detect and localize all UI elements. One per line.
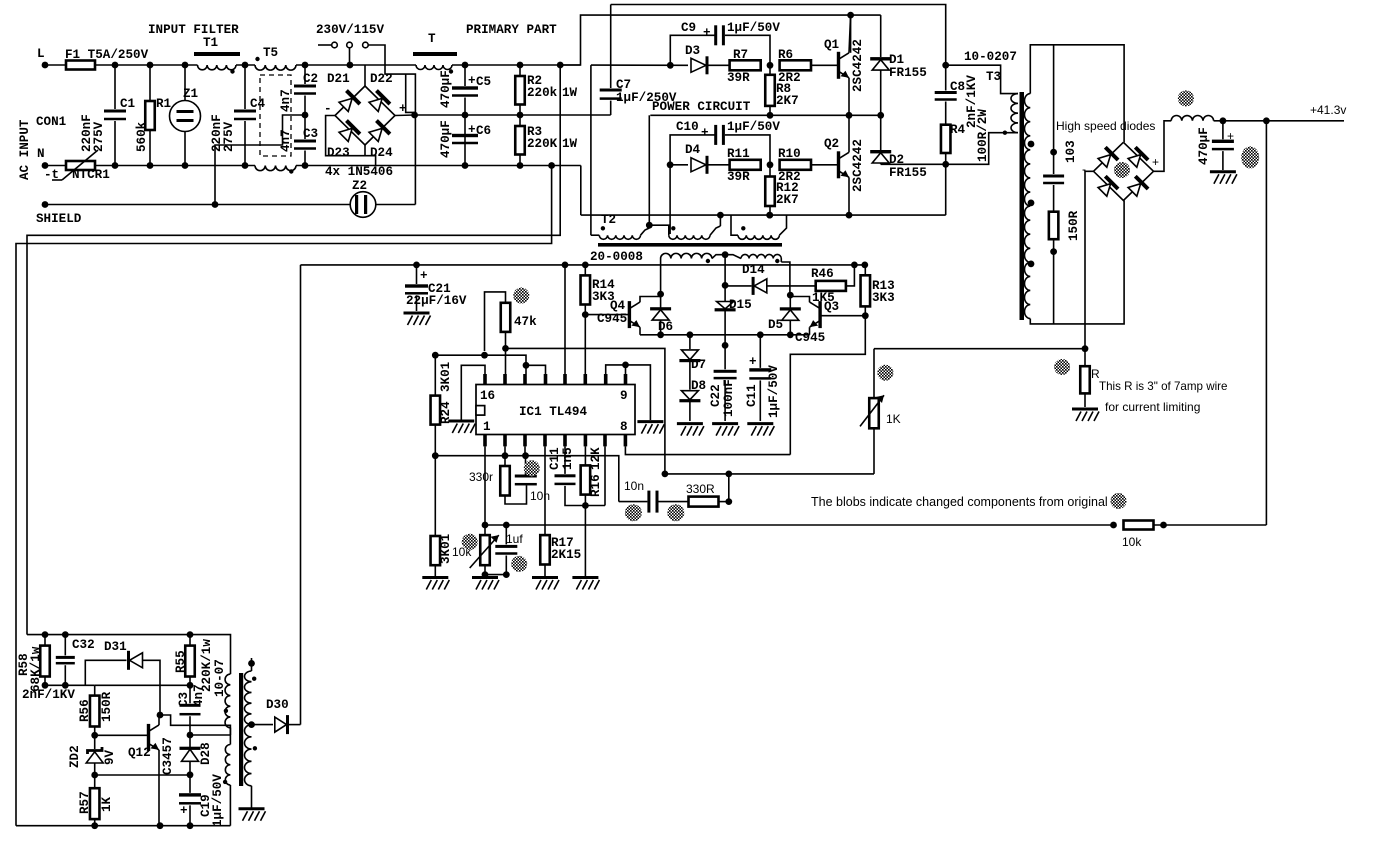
- wire R24 to pins 13 14: [435, 355, 526, 365]
- diode D2: [880, 115, 882, 150]
- node R58 bottom: [42, 682, 49, 689]
- node N-R1: [147, 162, 154, 169]
- svg-text:1n5: 1n5: [561, 447, 575, 470]
- capacitor C3 4n7: [189, 685, 191, 703]
- svg-text:+: +: [749, 355, 757, 369]
- blob above choke: [1178, 90, 1194, 106]
- node R14 bottom: [582, 311, 589, 318]
- node aux secondary top: [248, 660, 255, 667]
- wire switch right path: [368, 45, 415, 205]
- emitter rail T2: [580, 166, 582, 216]
- node 470uF out: [1220, 117, 1227, 124]
- hs diode NW: [1096, 146, 1119, 169]
- capacitor 1uf: [505, 525, 507, 544]
- svg-text:High speed diodes: High speed diodes: [1056, 119, 1155, 133]
- capacitor C10: [670, 135, 716, 165]
- diode D6: [660, 292, 662, 308]
- wire +310 to frame: [27, 65, 560, 635]
- standby top rail: [27, 635, 231, 675]
- resistor 330R: [659, 501, 689, 503]
- blob right of 470uF: [1241, 146, 1259, 168]
- resistor R3: [515, 126, 525, 155]
- node L-Z1: [182, 62, 189, 69]
- svg-text:1K: 1K: [886, 412, 901, 426]
- aux transformer primary coil: [225, 674, 230, 728]
- T3 secondary loop box: [1030, 45, 1124, 143]
- IC bottom pin stubs: [483, 434, 487, 446]
- node C22 top: [722, 342, 729, 349]
- node R58 top: [42, 631, 49, 638]
- node R2 top: [517, 62, 524, 69]
- node feedback out: [1263, 117, 1270, 124]
- svg-text:1µF/250V: 1µF/250V: [616, 91, 677, 105]
- svg-text:C2: C2: [303, 72, 318, 86]
- svg-text:39R: 39R: [727, 170, 750, 184]
- svg-text:Q4: Q4: [610, 299, 626, 313]
- node R11 R10 R12: [767, 161, 774, 168]
- diode D28: [189, 735, 191, 747]
- resistor 150R: [1053, 185, 1055, 212]
- terminal L: [42, 62, 49, 69]
- svg-text:PRIMARY PART: PRIMARY PART: [466, 23, 557, 37]
- svg-text:2SC4242: 2SC4242: [851, 39, 865, 92]
- wire Q3 emitter: [809, 327, 811, 335]
- node Q2 emitter rail: [846, 212, 853, 219]
- wire bridge E to mid rail: [395, 114, 415, 117]
- wire choke to out: [1214, 120, 1344, 122]
- svg-text:for current limiting: for current limiting: [1105, 400, 1200, 414]
- node R57 bottom: [91, 822, 98, 829]
- node Q1 emitter mid rail: [846, 112, 853, 119]
- wire Q12 base: [95, 734, 149, 736]
- svg-text:2K15: 2K15: [551, 548, 581, 562]
- node Q12 emitter: [157, 822, 164, 829]
- wire D31 branch: [85, 660, 126, 685]
- node switch: [347, 62, 354, 69]
- svg-text:10n: 10n: [624, 479, 644, 493]
- node 330R feedback: [725, 471, 732, 478]
- node C3 bottom: [187, 732, 194, 739]
- node R46 rail: [851, 262, 858, 269]
- blob 47k: [513, 288, 529, 304]
- svg-text:C32: C32: [72, 638, 95, 652]
- wire T5 to switch node: [296, 64, 416, 66]
- phase dot aux sec upper: [252, 677, 256, 681]
- terminal SHIELD: [42, 201, 49, 208]
- node Q1 collector rail: [847, 12, 854, 19]
- svg-text:D21: D21: [327, 72, 350, 86]
- thermistor NTCR1: [66, 161, 95, 170]
- diode D4: [691, 158, 706, 172]
- mid rail bridge to C7: [415, 114, 611, 116]
- output choke: [1171, 116, 1213, 121]
- node C2-C3 mid: [302, 112, 309, 119]
- pin11 wire: [584, 315, 586, 374]
- capacitor 103 column: [1053, 45, 1055, 174]
- svg-text:12K: 12K: [589, 447, 603, 470]
- wire Q12 collector to C3 D28: [160, 715, 230, 735]
- node C11 top: [757, 331, 764, 338]
- capacitor C5: [464, 65, 466, 86]
- wire zd2 row to D28: [95, 774, 190, 776]
- svg-text:470µF: 470µF: [439, 70, 453, 108]
- svg-text:10n: 10n: [530, 489, 550, 503]
- svg-text:470µF: 470µF: [1197, 127, 1211, 165]
- wire switch branch to bridge+: [406, 74, 415, 115]
- node C3 top: [187, 682, 194, 689]
- phase dot T5: [255, 57, 259, 61]
- wire L line left: [45, 64, 66, 66]
- svg-text:220K/1w: 220K/1w: [200, 639, 214, 692]
- svg-text:C945: C945: [597, 312, 627, 326]
- capacitor 1n5 C11: [555, 474, 576, 477]
- node aux secondary mid: [248, 721, 255, 728]
- svg-text:-: -: [324, 102, 332, 116]
- terminal N: [42, 162, 49, 169]
- node N rail x551: [548, 162, 555, 169]
- svg-text:275V: 275V: [92, 121, 106, 152]
- node T2 tap1: [646, 222, 653, 229]
- node D6 bottom: [657, 331, 664, 338]
- svg-text:2nF/1KV: 2nF/1KV: [22, 688, 75, 702]
- wire Q2 collector: [848, 115, 850, 152]
- resistor R7: [707, 64, 730, 66]
- resistor R17: [540, 535, 550, 564]
- node 330R right: [725, 498, 732, 505]
- IC top pin stubs: [483, 374, 487, 385]
- wire top rail to Q1 collector: [560, 15, 881, 65]
- node C2 top: [302, 62, 309, 69]
- node R24 top: [432, 352, 439, 359]
- resistor R16: [581, 465, 591, 494]
- resistor R57: [94, 775, 96, 788]
- wire center tap down: [724, 255, 726, 302]
- capacitor C7: [610, 5, 612, 89]
- svg-text:+: +: [468, 74, 476, 88]
- blob 10n right: [667, 504, 684, 521]
- diode D14: [725, 285, 751, 287]
- node 47k branch: [481, 352, 488, 359]
- tap dot T3 b: [1028, 200, 1035, 207]
- node R24 3K01: [432, 452, 439, 459]
- wire L to T5: [236, 64, 255, 66]
- wire D14 to R46: [767, 285, 816, 287]
- wire pin7 down: [604, 446, 606, 505]
- inductor T5 lower: [255, 166, 296, 171]
- blob 1uf: [511, 556, 527, 572]
- svg-text:IC1 TL494: IC1 TL494: [519, 405, 587, 419]
- svg-text:150R: 150R: [100, 691, 114, 722]
- svg-text:+41.3v: +41.3v: [1310, 103, 1346, 117]
- capacitor 470uF out: [1222, 121, 1224, 140]
- bridge high speed diodes outline: [1094, 142, 1154, 200]
- ground R16: [572, 578, 599, 590]
- svg-text:L: L: [37, 47, 45, 61]
- svg-text:T: T: [428, 32, 436, 46]
- svg-text:NTCR1: NTCR1: [72, 168, 110, 182]
- transistor Q12: [147, 724, 150, 751]
- node C4 top: [242, 62, 249, 69]
- svg-text:1µF/50V: 1µF/50V: [211, 774, 225, 827]
- pot 1K: [869, 398, 879, 428]
- svg-text:+: +: [468, 123, 476, 137]
- diode D21: [337, 89, 361, 113]
- node R12 rail: [766, 212, 773, 219]
- wire Q3 net down: [790, 316, 865, 455]
- svg-text:C3: C3: [303, 127, 318, 141]
- resistor R12: [769, 165, 771, 177]
- wire C2C3 mid to shield: [215, 115, 305, 205]
- node D5 bottom: [787, 331, 794, 338]
- T2 secondary A: [661, 253, 712, 258]
- svg-text:2K7: 2K7: [776, 94, 799, 108]
- node R14 top: [582, 262, 589, 269]
- svg-text:CON1: CON1: [36, 115, 67, 129]
- node N rail C6: [462, 162, 469, 169]
- resistor R14: [584, 265, 586, 276]
- svg-text:R: R: [1091, 367, 1100, 381]
- resistor R6: [780, 60, 811, 70]
- wire C3 node rail: [95, 684, 190, 686]
- svg-text:1W: 1W: [562, 86, 578, 100]
- svg-text:560k: 560k: [135, 121, 149, 152]
- wire L line: [95, 64, 198, 66]
- svg-text:D24: D24: [370, 146, 393, 160]
- node C21: [413, 262, 420, 269]
- node Q3 collector: [787, 292, 794, 299]
- wire primary return to frame: [16, 166, 552, 826]
- svg-text:ZD2: ZD2: [68, 745, 82, 768]
- svg-text:1µF/50V: 1µF/50V: [727, 120, 780, 134]
- svg-text:275V: 275V: [222, 121, 236, 152]
- transformer T3 secondary: [1025, 94, 1031, 319]
- wire N to C5C6 rail: [296, 165, 581, 167]
- resistor R46: [816, 281, 846, 291]
- node N-C4: [242, 162, 249, 169]
- svg-text:220k: 220k: [527, 86, 558, 100]
- node shield: [212, 201, 219, 208]
- svg-text:4x 1N5406: 4x 1N5406: [325, 165, 393, 179]
- svg-text:22µF/16V: 22µF/16V: [406, 294, 467, 308]
- svg-text:230V/115V: 230V/115V: [316, 23, 384, 37]
- svg-text:D1: D1: [889, 53, 905, 67]
- pin16 ground wire: [461, 365, 485, 420]
- ground 470uF: [1210, 172, 1237, 184]
- node D28 bottom: [187, 771, 194, 778]
- node R8 mid: [767, 112, 774, 119]
- svg-text:8: 8: [620, 420, 628, 434]
- node D7 rail: [687, 331, 694, 338]
- wire pin8 down: [625, 446, 790, 454]
- node ZD2 bottom: [91, 772, 98, 779]
- resistor 3K01: [434, 456, 436, 536]
- resistor R56: [94, 685, 96, 695]
- node C19 bottom: [187, 822, 194, 829]
- node current limit: [1082, 345, 1089, 352]
- wire pin5 down: [564, 446, 566, 474]
- node pin1 pot: [482, 522, 489, 529]
- pot 10k: [484, 525, 486, 535]
- svg-text:-t: -t: [44, 168, 59, 182]
- rail Q4 Q3: [640, 334, 810, 336]
- capacitor C4: [244, 65, 246, 109]
- wire Q4 base: [585, 314, 629, 316]
- svg-text:N: N: [37, 147, 45, 161]
- svg-text:D22: D22: [370, 72, 393, 86]
- svg-text:+: +: [701, 126, 709, 140]
- svg-text:150R: 150R: [1067, 210, 1081, 241]
- svg-text:2K7: 2K7: [776, 193, 799, 207]
- phase dot T3 primary: [1003, 131, 1007, 135]
- svg-text:39R: 39R: [727, 71, 750, 85]
- capacitor C21: [416, 265, 418, 284]
- svg-text:C3457: C3457: [161, 737, 175, 775]
- svg-text:AC INPUT: AC INPUT: [18, 119, 32, 180]
- wire 47k bottom to right: [506, 348, 665, 474]
- svg-text:C6: C6: [476, 124, 491, 138]
- wire tap1 up to mid rail: [648, 115, 650, 225]
- svg-text:T2: T2: [601, 213, 616, 227]
- svg-text:R55: R55: [174, 650, 188, 673]
- resistor R1: [149, 65, 151, 101]
- T2 primary S2: [649, 225, 669, 235]
- wire to control loop: [874, 348, 1085, 350]
- transformer T3 core: [1020, 92, 1025, 320]
- node pin3: [522, 452, 529, 459]
- node R13 rail: [861, 262, 868, 269]
- wire D2 to R4 node: [881, 163, 946, 165]
- hs diode SW: [1096, 175, 1119, 198]
- resistor R2: [519, 65, 521, 76]
- svg-text:220K: 220K: [527, 137, 558, 151]
- top rail C7 T3: [611, 5, 946, 66]
- svg-text:47k: 47k: [514, 315, 537, 329]
- node T2 S3: [766, 212, 773, 219]
- ground R17: [532, 578, 559, 590]
- capacitor C3: [304, 118, 306, 139]
- node R4 bottom: [942, 161, 949, 168]
- node N-Z1: [182, 162, 189, 169]
- svg-text:R46: R46: [811, 267, 834, 281]
- node pin12 rail: [562, 262, 569, 269]
- node R7 R6 R8: [767, 62, 774, 69]
- capacitor C1: [114, 65, 116, 109]
- ground D8: [677, 424, 704, 436]
- wire 330R up: [728, 474, 730, 502]
- node C32 bottom: [62, 682, 69, 689]
- wire N left: [45, 165, 66, 167]
- blob hs bridge center: [1114, 162, 1130, 178]
- capacitor C2: [304, 65, 306, 84]
- wire aux secondary bottom: [251, 786, 253, 809]
- diode D23: [337, 119, 361, 143]
- wire feedback down: [1265, 121, 1267, 525]
- svg-text:T3: T3: [986, 70, 1001, 84]
- ground C21: [404, 313, 431, 325]
- svg-text:C11: C11: [548, 447, 562, 470]
- svg-text:R7: R7: [733, 48, 748, 62]
- svg-text:D4: D4: [685, 143, 701, 157]
- diode D31: [127, 651, 130, 670]
- T2 primary S1: [591, 234, 599, 236]
- svg-text:C9: C9: [681, 21, 696, 35]
- pins 9 10 jumper: [606, 365, 626, 374]
- node R13 bottom: [862, 312, 869, 319]
- wire pin1 down: [484, 446, 486, 525]
- svg-text:C8: C8: [950, 80, 965, 94]
- svg-text:D3: D3: [685, 44, 700, 58]
- transformer T5 dashed box: [260, 75, 291, 156]
- switch 230V/115V: [318, 44, 332, 46]
- aux secondary upper: [245, 671, 252, 725]
- svg-text:C5: C5: [476, 75, 491, 89]
- svg-text:+: +: [1152, 155, 1159, 169]
- node C32 top: [62, 631, 69, 638]
- zener ZD2: [94, 735, 96, 749]
- bridge rectifier D21-D24 outline: [335, 86, 395, 145]
- T2 primary S3: [731, 215, 738, 235]
- svg-text:+: +: [420, 269, 428, 283]
- wire D30 feed up: [300, 265, 302, 725]
- node N-C1: [112, 162, 119, 169]
- node 47k bottom: [502, 345, 509, 352]
- resistor 10k feedback: [1110, 522, 1117, 529]
- svg-text:R10: R10: [778, 147, 801, 161]
- svg-text:100nF: 100nF: [722, 379, 736, 417]
- capacitor C32: [64, 635, 66, 656]
- aux rail: [301, 264, 865, 266]
- node R55 top: [187, 631, 194, 638]
- svg-text:R11: R11: [727, 147, 750, 161]
- phase dots T2 primary: [601, 226, 605, 230]
- ground 3K01: [422, 578, 449, 590]
- node L-C1: [112, 62, 119, 69]
- node 1uf top: [503, 522, 510, 529]
- svg-text:+: +: [399, 102, 407, 116]
- svg-text:C3: C3: [177, 692, 191, 707]
- wire pins 9 10 to ground: [626, 365, 651, 420]
- svg-text:F1 T5A/250V: F1 T5A/250V: [65, 48, 149, 62]
- svg-text:D14: D14: [742, 263, 765, 277]
- ground C22: [712, 424, 739, 436]
- T2 secondary center tap: [712, 255, 741, 259]
- svg-text:C1: C1: [120, 97, 136, 111]
- node mid R2R3: [517, 112, 524, 119]
- wire hs bridge plus to choke: [1154, 121, 1172, 172]
- phase dot aux primary: [224, 709, 228, 713]
- svg-text:9: 9: [620, 389, 628, 403]
- svg-text:Q2: Q2: [824, 137, 839, 151]
- svg-text:2SC4242: 2SC4242: [851, 139, 865, 192]
- node N-C2C3: [302, 162, 309, 169]
- svg-text:3K3: 3K3: [872, 291, 895, 305]
- svg-text:1K: 1K: [100, 796, 114, 812]
- diode D7: [689, 335, 691, 349]
- svg-text:R16: R16: [589, 474, 603, 497]
- blob 330r: [524, 460, 540, 476]
- resistor R8: [769, 65, 771, 75]
- resistor R24: [434, 355, 436, 395]
- tap dot T3 c: [1028, 261, 1035, 268]
- svg-text:R6: R6: [778, 48, 793, 62]
- svg-text:R56: R56: [78, 699, 92, 722]
- wire Q4 collector: [640, 297, 661, 303]
- svg-text:9V: 9V: [103, 749, 117, 765]
- phase dot aux lower left: [223, 780, 227, 784]
- node +310 branch: [557, 62, 564, 69]
- svg-text:+: +: [1227, 129, 1234, 143]
- svg-text:10k: 10k: [1122, 535, 1142, 549]
